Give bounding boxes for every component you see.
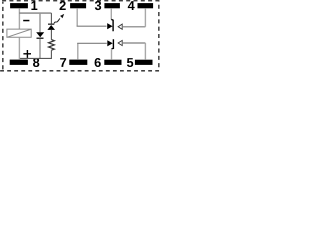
pin label 1 <box>31 1 37 10</box>
pin label 2 <box>60 1 66 10</box>
wire diode branch vertical (anode side) <box>39 13 41 32</box>
pin label 7 <box>60 58 66 67</box>
contact NO open arrow (pole 1) <box>118 24 145 29</box>
wire upper corner into diode D2 branch <box>50 13 52 24</box>
pin label 3 <box>95 1 101 10</box>
dashed outline border right <box>158 1 160 71</box>
wire diode D1 cathode down to bottom branch <box>39 39 41 59</box>
contact moving arm arrow (pole 1, closed) <box>107 23 112 29</box>
pin pad 2 <box>70 3 86 8</box>
wire coil bottom to pin8 <box>18 37 20 59</box>
contact fixed bar (pole 1) <box>111 19 113 31</box>
coil polarity minus <box>23 20 29 22</box>
pin label 4 <box>128 1 135 10</box>
pin pad 1 <box>10 3 28 8</box>
pin pad 4 <box>138 3 154 8</box>
wire pin5 stem <box>144 43 146 60</box>
wire pin1 branch horizontal <box>19 12 51 14</box>
contact fixed bar (pole 2) <box>112 39 114 49</box>
pin label 8 <box>33 58 39 67</box>
dashed outline border bottom <box>0 70 162 72</box>
wire pin7 to NC contact <box>77 42 107 44</box>
wire pin1 stem down to coil <box>18 8 20 29</box>
pin label 5 <box>127 58 133 67</box>
contact NO open arrow (pole 2) <box>118 40 145 45</box>
coil polarity plus <box>23 50 31 58</box>
dashed outline border top <box>0 0 162 2</box>
wire pin7 stem up <box>77 43 79 59</box>
wire resistor bottom corner to bottom branch <box>19 50 51 58</box>
dashed outline border left <box>2 2 4 70</box>
operate direction wavy arrow <box>54 14 64 24</box>
wire pin4 stem <box>144 8 146 27</box>
pin label 6 <box>95 58 101 67</box>
diode D2 (pointing up) <box>47 24 55 30</box>
pin pad 3 <box>104 3 120 8</box>
wire pin2 to NC contact <box>77 25 107 27</box>
wire pin6 stem down <box>111 49 113 60</box>
diode D1 (pointing down) <box>36 32 44 39</box>
wire pin2 stem down <box>76 8 78 26</box>
coil L1 box with diagonal <box>7 29 31 37</box>
pin pad 8 <box>10 60 28 65</box>
pin pad 6 <box>104 60 121 65</box>
pin pad 7 <box>69 60 87 65</box>
pin pad 5 <box>135 60 153 65</box>
contact moving arm arrow (pole 2, closed) <box>107 40 112 46</box>
wire pin3 stem down <box>110 8 112 19</box>
wire diode D2 to resistor <box>50 30 52 40</box>
resistor R1 zigzag <box>49 40 55 51</box>
